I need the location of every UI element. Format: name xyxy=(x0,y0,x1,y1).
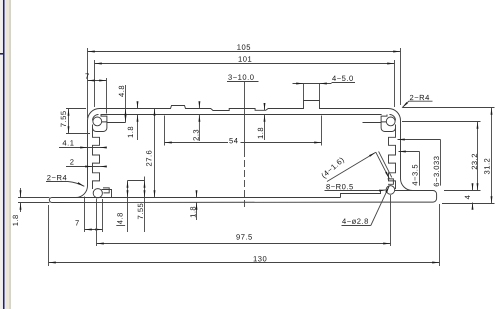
dimension 97.5 xyxy=(96,199,98,247)
label 4-3.5 xyxy=(399,151,420,153)
svg-text:4.1: 4.1 xyxy=(62,139,74,148)
svg-text:6−3.033: 6−3.033 xyxy=(432,156,441,187)
inner fillet top-left xyxy=(93,115,99,121)
svg-text:2.3: 2.3 xyxy=(191,129,200,141)
svg-text:7: 7 xyxy=(75,219,80,228)
svg-text:130: 130 xyxy=(253,254,267,263)
svg-text:8−R0.5: 8−R0.5 xyxy=(326,182,354,191)
dimension 1.8 bottom mid xyxy=(196,192,198,198)
svg-text:4: 4 xyxy=(463,195,472,200)
svg-text:4−5.0: 4−5.0 xyxy=(332,74,354,83)
rib under top wall left xyxy=(107,122,126,124)
dimension 105 xyxy=(87,48,89,118)
screw boss top-left xyxy=(93,117,102,126)
svg-text:2: 2 xyxy=(70,158,75,167)
dimension 54 xyxy=(164,116,166,146)
svg-text:31.2: 31.2 xyxy=(483,158,492,175)
dimension 7.55 bottom xyxy=(144,198,146,233)
screw boss top-right xyxy=(386,117,395,126)
top wall inner surface xyxy=(101,114,382,116)
svg-text:7.55: 7.55 xyxy=(59,110,68,127)
svg-text:4.8: 4.8 xyxy=(115,212,124,224)
flange top right of boss xyxy=(395,190,413,192)
svg-text:4−ø2.8: 4−ø2.8 xyxy=(342,217,369,226)
svg-text:(4−1.6): (4−1.6) xyxy=(319,155,346,180)
dimension 23.2 xyxy=(402,121,481,123)
dimension 130 xyxy=(48,205,50,266)
dimension 2.3 xyxy=(198,103,200,109)
right wall serrations xyxy=(389,125,396,190)
dimension 4.8 bottom xyxy=(127,198,129,233)
svg-text:1.8: 1.8 xyxy=(11,214,20,226)
dimension 4 right xyxy=(472,184,474,191)
left wall serrations xyxy=(93,125,100,190)
dimension 31.2 xyxy=(403,107,495,109)
svg-text:1.8: 1.8 xyxy=(188,206,197,218)
dimension 7.55 left xyxy=(66,108,86,110)
svg-text:7.55: 7.55 xyxy=(136,203,145,220)
svg-text:23.2: 23.2 xyxy=(470,153,479,170)
dimension 1.8 top wall xyxy=(137,103,139,109)
recessed flange top xyxy=(76,197,341,199)
svg-text:105: 105 xyxy=(237,43,251,52)
window panel strip left xyxy=(0,0,11,309)
svg-text:27.6: 27.6 xyxy=(145,150,154,167)
svg-text:1.8: 1.8 xyxy=(256,127,265,139)
flange rib right xyxy=(341,191,381,198)
svg-text:101: 101 xyxy=(238,55,252,64)
screw boss bottom-left xyxy=(93,189,102,198)
svg-text:4.8: 4.8 xyxy=(117,85,126,97)
svg-text:1.8: 1.8 xyxy=(126,126,135,138)
svg-text:4−3.5: 4−3.5 xyxy=(411,164,420,186)
profile outer shell outline xyxy=(49,101,436,203)
svg-text:97.5: 97.5 xyxy=(236,233,253,242)
dimension 101 xyxy=(94,60,96,107)
svg-text:7: 7 xyxy=(85,72,90,81)
dimension 7 top xyxy=(106,78,108,114)
dimension 27.6 xyxy=(154,109,156,198)
boss shoulder left xyxy=(102,190,112,198)
svg-text:3−10.0: 3−10.0 xyxy=(228,73,254,82)
label 6-3.033 xyxy=(398,139,441,141)
rib under top wall right xyxy=(363,122,382,124)
dimension 7 bottom xyxy=(84,197,86,233)
svg-text:2−R4: 2−R4 xyxy=(47,173,67,182)
dimension 1.8 far left xyxy=(18,197,50,199)
screw boss bottom-right xyxy=(386,186,395,195)
dimension 4.8 top xyxy=(125,85,127,109)
svg-text:54: 54 xyxy=(229,136,238,145)
inner fillet top-right xyxy=(390,115,396,121)
dimension 1.8 mid xyxy=(264,115,266,141)
